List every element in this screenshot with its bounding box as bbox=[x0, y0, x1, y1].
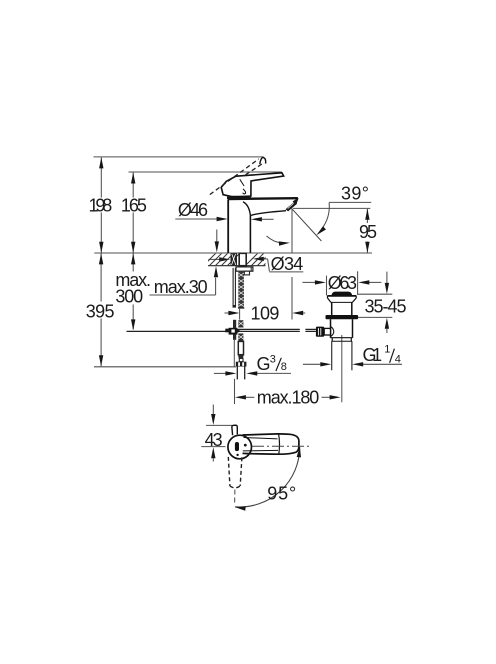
svg-text:300: 300 bbox=[115, 287, 143, 307]
svg-text:95°: 95° bbox=[267, 484, 296, 504]
svg-text:35-45: 35-45 bbox=[365, 296, 407, 316]
svg-text:max.180: max.180 bbox=[257, 388, 320, 408]
svg-text:395: 395 bbox=[86, 302, 115, 322]
svg-text:Ø46: Ø46 bbox=[178, 200, 208, 220]
svg-text:3: 3 bbox=[270, 354, 276, 366]
svg-text:1: 1 bbox=[384, 344, 390, 356]
svg-text:109: 109 bbox=[251, 303, 280, 323]
svg-text:Ø34: Ø34 bbox=[271, 254, 304, 274]
svg-text:165: 165 bbox=[121, 196, 147, 216]
svg-text:8: 8 bbox=[281, 361, 287, 373]
svg-text:43: 43 bbox=[205, 430, 223, 450]
svg-text:G: G bbox=[257, 354, 271, 374]
svg-text:39°: 39° bbox=[341, 183, 369, 203]
svg-text:95: 95 bbox=[359, 222, 377, 242]
svg-text:4: 4 bbox=[395, 353, 401, 365]
svg-text:Ø63: Ø63 bbox=[328, 273, 357, 293]
svg-text:max.30: max.30 bbox=[154, 277, 208, 297]
svg-text:G1: G1 bbox=[363, 345, 383, 365]
svg-text:198: 198 bbox=[89, 196, 113, 216]
